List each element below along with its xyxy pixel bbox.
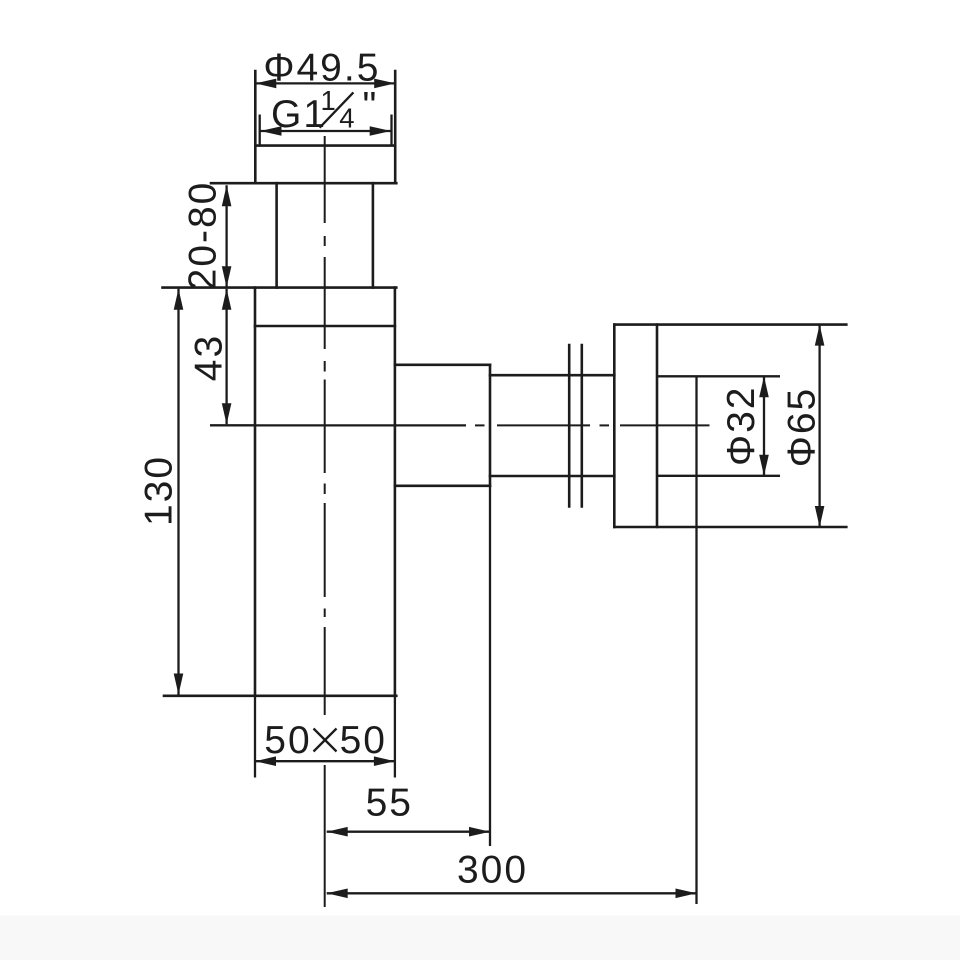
dimension phi49.5	[255, 47, 395, 90]
dimension 50x50	[255, 719, 395, 766]
top nut outline	[211, 71, 396, 183]
body bottom extension lines	[255, 696, 395, 778]
svg-text:43: 43	[188, 334, 231, 381]
bottom gray strip	[0, 916, 960, 960]
extension line 55 right	[489, 486, 491, 846]
horizontal centerline	[210, 424, 710, 426]
svg-text:20-80: 20-80	[182, 181, 225, 291]
phi32 extension lines	[657, 376, 780, 476]
svg-text:4: 4	[339, 103, 355, 134]
outlet pipe	[490, 375, 614, 476]
dimension 20-80	[182, 181, 232, 291]
svg-text:Φ49.5: Φ49.5	[263, 47, 380, 90]
outlet stub	[395, 365, 490, 486]
extension line 300 right	[695, 376, 697, 904]
svg-text:130: 130	[138, 455, 181, 526]
dimension 55	[327, 782, 490, 837]
svg-text:300: 300	[457, 849, 528, 892]
dimension 130	[138, 289, 184, 695]
svg-text:Φ65: Φ65	[781, 387, 824, 468]
wall box	[614, 325, 846, 527]
trap body	[163, 288, 397, 696]
dimension 43	[188, 289, 256, 426]
svg-text:50: 50	[264, 719, 311, 762]
inlet tube	[277, 183, 373, 287]
svg-text:55: 55	[366, 782, 413, 825]
dimension 300	[327, 849, 697, 899]
svg-text:Φ32: Φ32	[720, 386, 763, 467]
dimension phi32	[720, 376, 769, 476]
wall flange lines	[569, 345, 582, 506]
vertical centerline	[324, 136, 326, 907]
svg-text:G1: G1	[271, 93, 327, 136]
svg-text:50: 50	[340, 719, 387, 762]
dimension G1 1/4 inch	[260, 85, 392, 146]
svg-text:": "	[363, 85, 379, 128]
dimension phi65	[781, 325, 825, 527]
